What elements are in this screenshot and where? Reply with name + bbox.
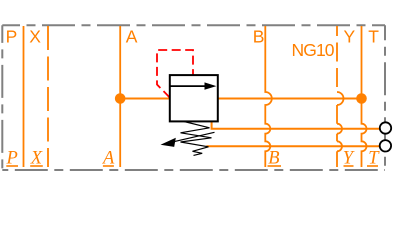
svg-text:P: P bbox=[6, 26, 18, 46]
svg-text:B: B bbox=[253, 26, 265, 46]
svg-text:NG10: NG10 bbox=[292, 40, 335, 60]
svg-text:Y: Y bbox=[344, 26, 356, 46]
svg-text:T: T bbox=[368, 26, 379, 46]
svg-text:A: A bbox=[126, 26, 138, 46]
svg-text:X: X bbox=[29, 26, 41, 46]
